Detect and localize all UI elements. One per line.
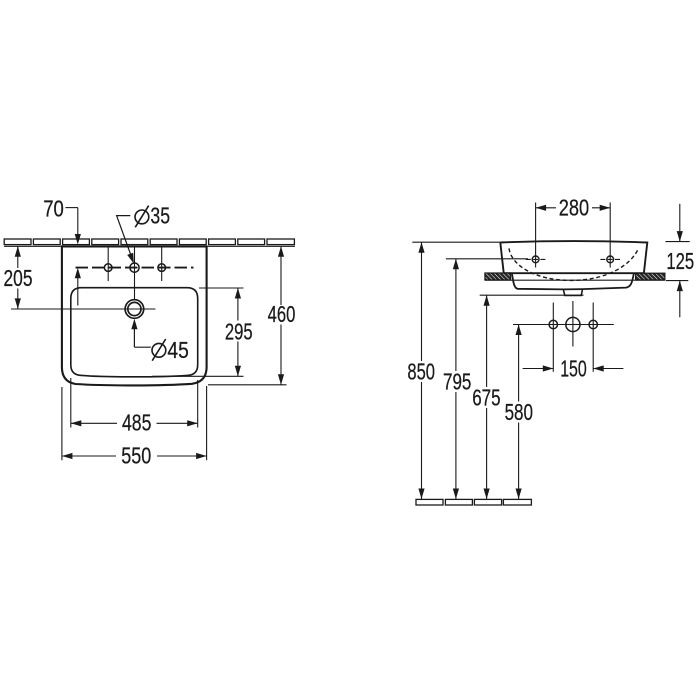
- fixing hole left: [532, 256, 539, 263]
- basin outer outline (front view): [62, 246, 207, 385]
- dimension 675 reference line: [480, 294, 584, 296]
- svg-text:675: 675: [472, 385, 500, 411]
- wall bracket hatch right: [636, 273, 665, 280]
- svg-text:295: 295: [225, 318, 253, 344]
- dimension 295: [237, 288, 239, 321]
- svg-text:35: 35: [150, 202, 170, 228]
- svg-text:125: 125: [666, 248, 694, 274]
- fixing hole right: [607, 256, 614, 263]
- basin inner rim (front view): [71, 288, 198, 377]
- tap hole left: [104, 264, 112, 272]
- tap hole centerline: [76, 267, 194, 269]
- label d35 leader: [117, 216, 134, 262]
- dimension 550 extension lines: [61, 387, 63, 460]
- dimension 850: [421, 242, 423, 361]
- svg-text:460: 460: [268, 301, 296, 327]
- tap hole right: [158, 264, 166, 272]
- tap hole vertical left: [107, 246, 109, 281]
- dimension 795 extension: [446, 258, 528, 260]
- outlet spigot: [563, 289, 582, 295]
- svg-text:280: 280: [559, 195, 589, 221]
- dimension 460 extension bottom: [208, 384, 287, 386]
- dimension 485: [71, 422, 117, 424]
- basin upper body bottom edge: [504, 272, 644, 274]
- dimension 675: [486, 295, 488, 387]
- dimension 280 extension lines: [535, 203, 537, 268]
- dimension 205: [17, 246, 19, 268]
- wall bracket hatch left: [485, 273, 511, 280]
- basin top edge thick (front view): [61, 245, 207, 247]
- dimension 280: [536, 207, 556, 209]
- dimension 850 extension: [412, 241, 500, 243]
- label d45 symbol: [152, 343, 166, 357]
- svg-text:550: 550: [121, 443, 151, 469]
- svg-text:70: 70: [43, 195, 64, 221]
- d45 centerline: [11, 308, 156, 310]
- drain centerline: [513, 324, 614, 326]
- basin lower body (rear view): [512, 273, 634, 289]
- floor tile strip: [416, 499, 531, 505]
- svg-text:150: 150: [560, 355, 587, 381]
- label d35 symbol: [135, 210, 149, 224]
- dimension 125: [679, 204, 681, 242]
- tap hole vertical middle: [134, 246, 136, 300]
- dimension 150: [523, 368, 554, 370]
- drain hole right: [589, 320, 597, 328]
- wall bracket lower edge line: [485, 279, 665, 281]
- svg-text:580: 580: [505, 399, 533, 425]
- svg-text:850: 850: [407, 359, 435, 385]
- d45 leader arrow: [131, 319, 137, 330]
- basin interior dashed bowl line: [509, 248, 639, 280]
- wall surface line (front view): [4, 245, 295, 247]
- dimension 485 extension lines: [70, 378, 72, 428]
- tap hole middle (d35): [130, 263, 139, 272]
- wall tile strip (front view): [4, 239, 294, 245]
- svg-text:485: 485: [122, 410, 151, 436]
- drain hole verticals: [552, 303, 554, 372]
- drain hole middle: [566, 317, 580, 331]
- dimension 460: [280, 246, 282, 305]
- drain hole left: [549, 320, 557, 328]
- dimension 795: [455, 259, 457, 371]
- svg-text:795: 795: [443, 369, 471, 395]
- dimension 125 reference ticks: [665, 241, 689, 243]
- svg-text:45: 45: [167, 337, 188, 363]
- dimension 295 extension top: [199, 287, 244, 289]
- dimension 295 extension bottom: [152, 375, 244, 377]
- dimension 580: [518, 325, 520, 402]
- svg-text:205: 205: [4, 265, 33, 291]
- tap hole vertical right: [161, 246, 163, 281]
- basin outline top (rear view): [500, 241, 647, 273]
- dimension 550: [62, 455, 116, 457]
- overflow hole d45 (front view): [125, 300, 144, 319]
